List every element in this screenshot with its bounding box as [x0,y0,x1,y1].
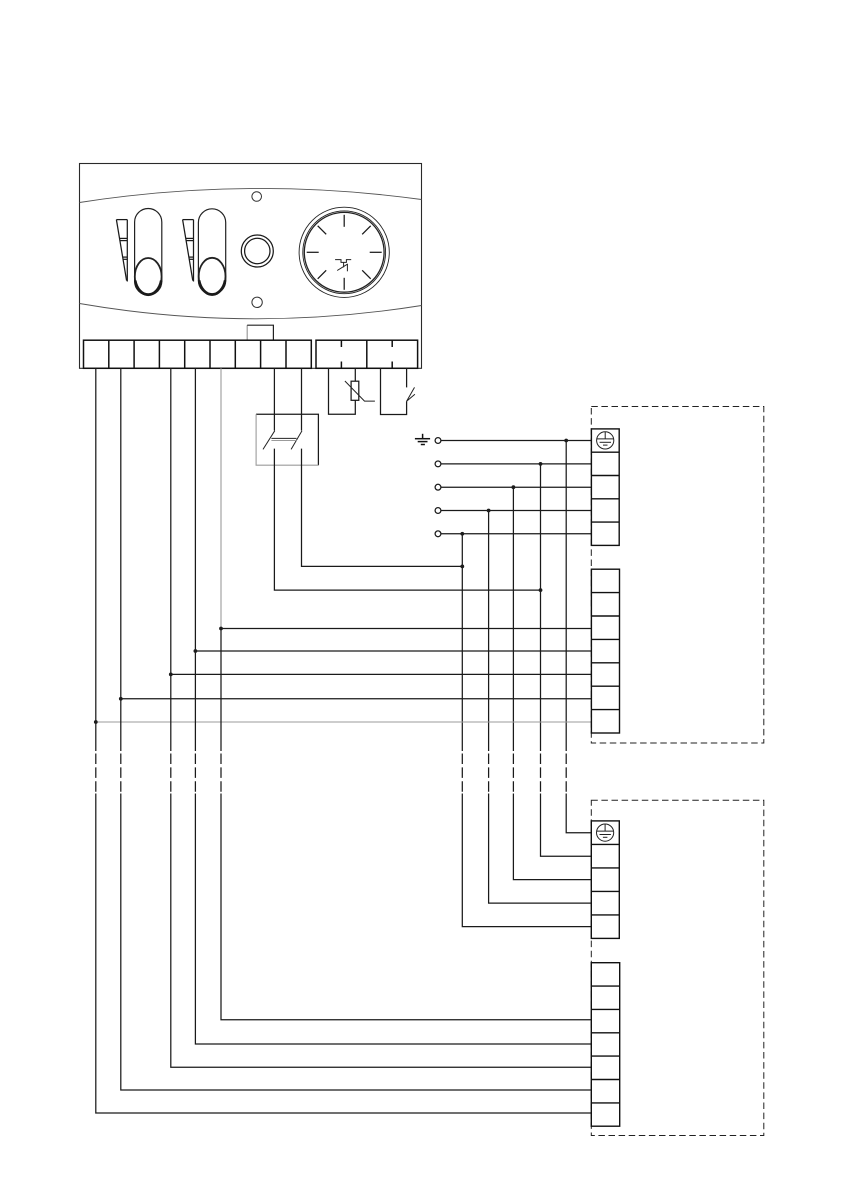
strip wire 5 [221,629,591,1020]
junction dot bus 5 [460,532,464,536]
lower unit terminal strip D [591,963,619,1126]
main terminal strip left group [84,340,312,368]
room thermostat box top and right [256,414,318,465]
lower unit terminal strip C [591,821,619,939]
control panel outline [80,164,422,369]
slider 1 wedge scale [116,220,127,282]
wire pole A down to node [274,449,540,590]
strip wire 1 [96,368,592,1113]
riser bus 4 [489,511,592,904]
junction dot wire 5 [219,627,223,631]
button inner [245,238,270,263]
upper external unit dashed box [591,407,764,744]
riser bus 1 [566,441,591,833]
thermostat switch loop wire [381,368,407,414]
strip wire 3 [171,368,592,1067]
screw top [252,192,262,202]
junction dot thermostat pole A [539,588,543,592]
terminal circle 5 [435,531,441,537]
lower unit earth terminal symbol [597,824,614,841]
main terminal strip right group [316,340,418,368]
wire terminal 4 to strip [441,510,592,512]
upper unit terminal strip B [591,569,619,733]
junction dot bus 4 [487,509,491,513]
button outer [241,235,273,267]
junction dot earth bus [564,439,568,443]
junction dot bus 2 [539,462,543,466]
panel fascia top curve [80,188,422,202]
upper unit earth terminal symbol [597,432,614,449]
wire terminal 5 to strip [441,533,592,535]
dial tick marks [307,215,382,290]
terminal circle 2 [435,461,441,467]
room thermostat box left and bottom [256,414,318,465]
junction dot wire 4 [194,649,198,653]
slider 1 knob [135,258,162,295]
junction dot thermostat pole B [460,565,464,569]
terminal circle 4 [435,508,441,514]
junction dot bus 3 [512,485,516,489]
slider 1 track [135,209,162,296]
slider 2 track [198,209,225,294]
strip wire 2 [121,368,592,1090]
junction dot wire 3 [169,673,173,677]
wire pole B down to node [302,449,463,567]
thermostat contact blades [263,431,302,450]
slider 1 knob bottom emphasis [135,281,161,295]
lower external unit dashed box [591,800,764,1135]
strip wire 1 gray branch [96,721,592,723]
thermostat link bar shadow [271,440,296,442]
dial centre glyph [335,260,351,272]
NTC sensor loop wire [329,368,356,414]
NTC sensor diagonal arrow [345,381,375,401]
slider 2 knob [199,258,226,295]
slider 2 knob bottom emphasis [199,280,225,294]
junction dot wire 1 [94,720,98,724]
panel fascia bottom curve [80,304,422,319]
strip wire 5 gray upper [220,368,222,628]
riser bus 5 [462,534,591,927]
wire terminal 3 to strip [441,486,592,488]
riser bus 2 [541,464,592,856]
riser bus 3 [513,487,591,879]
thermostat switch blade [407,387,415,401]
screw bottom [252,297,262,307]
terminal circle earth [435,438,441,444]
thermostat pole wires [274,368,301,430]
upper unit terminal strip A [591,429,619,546]
timer dial rings [299,207,389,297]
NTC sensor body [351,381,359,400]
terminal circle 3 [435,484,441,490]
thermostat link bar [271,437,296,439]
wire earth terminal to strip [441,440,592,442]
terminal strip notch [246,325,248,340]
strip wire 4 [195,368,591,1044]
wire terminal 2 to strip [441,463,592,465]
slider 2 wedge scale [183,220,194,282]
earth symbol [415,434,430,445]
junction dot wire 2 [119,697,123,701]
